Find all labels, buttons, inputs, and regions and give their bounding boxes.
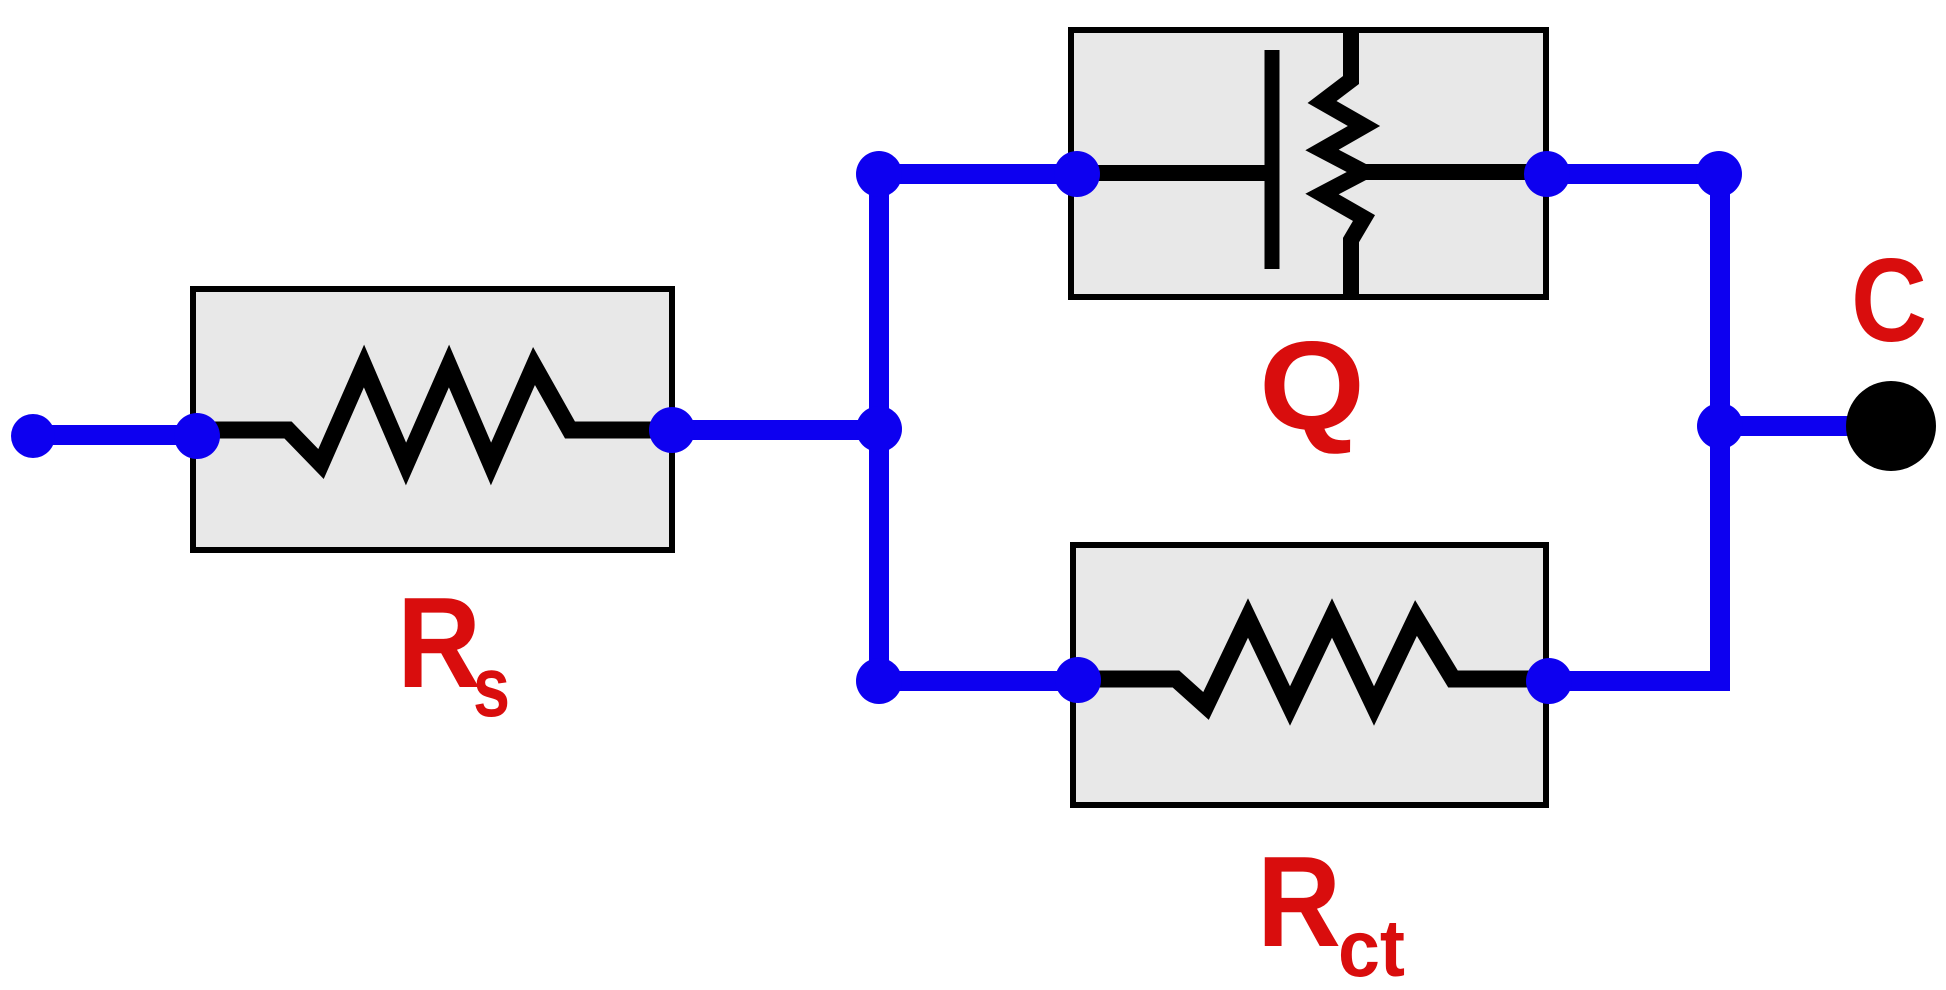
capacitor Q left lead bbox=[1077, 165, 1265, 181]
node: Q right bbox=[1524, 151, 1570, 197]
svg-text:ct: ct bbox=[1338, 904, 1405, 990]
resistor R1 box (Rs) bbox=[193, 289, 672, 550]
wire: left riser (junction vertical) bbox=[869, 174, 889, 681]
node: Rs left bbox=[174, 413, 220, 459]
node: Rct right bbox=[1526, 658, 1572, 704]
capacitor Q right lead bbox=[1362, 164, 1547, 180]
resistor R1 zigzag (Rs) bbox=[197, 366, 672, 464]
wire: output to terminal C bbox=[1720, 416, 1891, 436]
svg-text:Q: Q bbox=[1259, 315, 1365, 456]
wire: bottom branch to Rct box bbox=[879, 671, 1078, 691]
node: output junction bbox=[1697, 403, 1743, 449]
wire: Rct box to bottom-right corner bbox=[1549, 671, 1730, 691]
node: top-right corner bbox=[1696, 151, 1742, 197]
svg-text:R: R bbox=[1257, 830, 1341, 974]
node: left terminal bbox=[11, 414, 55, 458]
node: top-left branch bbox=[856, 151, 902, 197]
svg-text:s: s bbox=[473, 640, 510, 735]
resistor R2 box (Rct) bbox=[1073, 545, 1546, 805]
svg-text:C: C bbox=[1851, 234, 1927, 367]
wire: right riser bbox=[1710, 174, 1730, 691]
capacitor Q plate bar bbox=[1265, 50, 1280, 269]
node: center junction bbox=[856, 406, 902, 452]
wire: Q box to top-right corner bbox=[1547, 164, 1719, 184]
wire: Rs right node to center junction bbox=[672, 420, 879, 440]
wire: left terminal to Rs bbox=[33, 425, 197, 445]
wire: top branch to Q box bbox=[879, 164, 1077, 184]
node: Rs right bbox=[649, 407, 695, 453]
capacitor Q vertical zigzag bbox=[1322, 28, 1364, 300]
capacitor Q box (CPE) bbox=[1071, 30, 1546, 297]
resistor R2 zigzag (Rct) bbox=[1078, 618, 1549, 706]
svg-text:R: R bbox=[397, 571, 481, 715]
node: Q left bbox=[1054, 151, 1100, 197]
terminal C dot bbox=[1846, 381, 1936, 471]
node: Rct left bbox=[1055, 657, 1101, 703]
node: bottom-left branch bbox=[856, 658, 902, 704]
